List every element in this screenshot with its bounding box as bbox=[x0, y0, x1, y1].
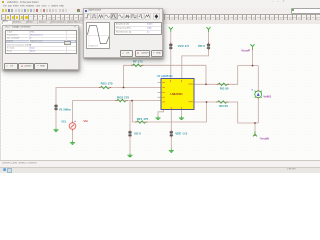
node junction RF1/input bbox=[123, 87, 125, 89]
resistor RF2 bbox=[135, 117, 148, 123]
resistor RG1 bbox=[99, 82, 113, 89]
app title bar bbox=[0, 0, 320, 6]
wire VoutP stem bbox=[252, 49, 254, 66]
dialog VG1 Voltage Generator bbox=[2, 25, 79, 70]
IC left pin stub 3 bbox=[158, 92, 161, 94]
wire voltmeter to lower corner bbox=[257, 98, 259, 123]
pin label GD bbox=[162, 91, 165, 94]
svg-text:RF 175: RF 175 bbox=[133, 59, 143, 63]
svg-text:VEE -2.5: VEE -2.5 bbox=[175, 132, 187, 136]
waveform buttons bbox=[84, 8, 162, 10]
wire VCC jumper stem bbox=[170, 32, 172, 44]
OK button bbox=[4, 63, 19, 69]
ground under VO battery bbox=[127, 153, 132, 157]
svg-text:RO 50: RO 50 bbox=[219, 104, 228, 108]
tab row bbox=[0, 20, 320, 25]
pin label IN+ bbox=[162, 81, 165, 84]
jumper VoutN bbox=[255, 135, 256, 136]
resistor RO2 bbox=[216, 101, 228, 108]
wire V1 to top input line bbox=[56, 88, 161, 105]
svg-text:RF1 175: RF1 175 bbox=[137, 117, 149, 121]
Help button bbox=[34, 63, 48, 69]
svg-text:VG1: VG1 bbox=[61, 120, 67, 123]
node junction RG2/RF2 bbox=[131, 100, 133, 102]
wire OUT- line bbox=[194, 102, 258, 123]
wire voltmeter vertical bbox=[257, 66, 259, 91]
pin label D0 bbox=[162, 101, 165, 104]
battery VO bbox=[128, 130, 141, 137]
svg-text:LMH5401: LMH5401 bbox=[170, 92, 183, 96]
jumper VoutP bbox=[252, 49, 253, 50]
toolbar 1 bbox=[0, 8, 320, 14]
pin label PD bbox=[180, 80, 183, 82]
Cancel button bbox=[135, 50, 150, 57]
wire battery VO to ground bbox=[129, 136, 131, 153]
wire branch to battery VO bbox=[129, 101, 131, 131]
svg-text:RG1 175: RG1 175 bbox=[101, 82, 113, 86]
svg-text:VoutP: VoutP bbox=[241, 48, 250, 52]
pin label D1 bbox=[162, 96, 165, 99]
node junction RF2/OUT- bbox=[206, 101, 208, 103]
OK button bbox=[120, 50, 134, 57]
svg-text:Vin: Vin bbox=[83, 119, 88, 123]
pin label IN- bbox=[162, 86, 165, 89]
pin label VEE bbox=[170, 107, 173, 109]
svg-text:V1 500m: V1 500m bbox=[59, 108, 71, 112]
menu bar bbox=[0, 5, 320, 9]
jumper PD bbox=[208, 42, 209, 43]
node junction VoutN bbox=[254, 122, 256, 124]
op-amp U1 LMH5401 bbox=[157, 74, 194, 109]
wire VEE battery to ground bbox=[170, 136, 172, 148]
wire V1 bottom to ground bbox=[55, 111, 57, 129]
search box top right bbox=[291, 8, 320, 13]
svg-text:VoutN: VoutN bbox=[260, 137, 270, 141]
status bar bbox=[0, 160, 320, 167]
pin label OUT- bbox=[188, 100, 192, 103]
taskbar bbox=[0, 167, 320, 173]
property table bbox=[5, 30, 78, 54]
battery V1 bbox=[54, 104, 71, 112]
jumper VCC bbox=[170, 42, 171, 43]
resistor RG2 bbox=[115, 96, 129, 102]
IC left pin stub 1 bbox=[158, 82, 161, 84]
wire VoutN stem bbox=[254, 123, 256, 136]
waveform preview bbox=[86, 22, 111, 49]
voltmeter VoM1 bbox=[252, 89, 272, 98]
wire OUT+ line bbox=[194, 66, 258, 85]
dialog Signal Editor bbox=[83, 8, 163, 58]
wire IC bottom to VEE battery bbox=[170, 110, 172, 132]
schematic svg bbox=[0, 0, 320, 172]
battery VEE bbox=[170, 130, 188, 137]
IC left pin stub 4 bbox=[158, 96, 161, 98]
pin label OUT+ bbox=[188, 83, 192, 86]
svg-text:U1 LMH5401: U1 LMH5401 bbox=[157, 74, 173, 78]
battery VCC bbox=[169, 43, 189, 50]
wire PD battery to IC top pin bbox=[182, 49, 209, 78]
svg-text:PD 0: PD 0 bbox=[198, 44, 205, 48]
generator VG1 bbox=[61, 120, 76, 130]
wire RF1 feedback top bbox=[124, 65, 207, 87]
ground stub left of IC bbox=[155, 116, 160, 120]
svg-text:VoM1: VoM1 bbox=[263, 94, 271, 98]
wire VCC battery to IC top pin bbox=[170, 49, 172, 78]
battery PD bbox=[198, 43, 210, 50]
svg-text:VCC 2.5: VCC 2.5 bbox=[178, 44, 190, 48]
ground under VG1 bbox=[70, 141, 75, 145]
svg-text:RO 50: RO 50 bbox=[220, 86, 229, 90]
resistor RO1 bbox=[217, 83, 229, 90]
ground stub under IC bbox=[179, 116, 184, 120]
Cancel button bbox=[18, 63, 33, 69]
pin label GND bbox=[180, 107, 183, 109]
schematic canvas bbox=[0, 24, 320, 160]
wire VG1 bottom to ground bbox=[72, 130, 74, 141]
wire VG1 up to lower input line bbox=[73, 101, 162, 123]
Help button bbox=[151, 50, 163, 57]
node junction RF1/OUT+ bbox=[205, 83, 207, 85]
pin label VCC bbox=[169, 80, 172, 82]
ground under VEE battery bbox=[169, 149, 174, 153]
wire PD jumper stem bbox=[208, 32, 210, 44]
wire IC ground L-stub bbox=[158, 110, 164, 117]
parameter table bbox=[114, 22, 162, 36]
wire RF2 feedback bottom bbox=[132, 101, 206, 122]
toolbar 2 : component buttons bbox=[0, 14, 320, 21]
svg-text:RG2 175: RG2 175 bbox=[117, 96, 129, 100]
ground under V1 bbox=[53, 128, 58, 132]
node junction VoutP bbox=[252, 65, 254, 67]
wire IC bottom pin to ground stub bbox=[181, 110, 183, 116]
resistor RF1 bbox=[131, 59, 143, 66]
svg-text:VO 0: VO 0 bbox=[134, 132, 141, 136]
